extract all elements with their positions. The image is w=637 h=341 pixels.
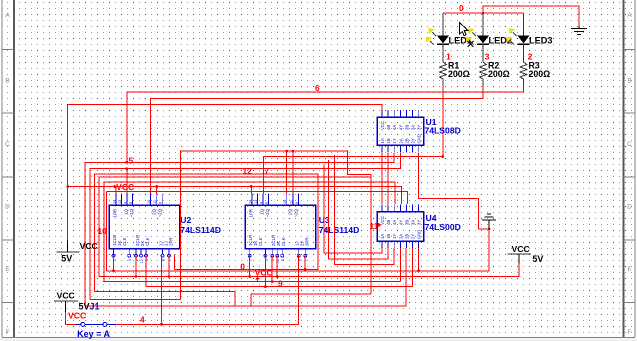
svg-text:VCC: VCC xyxy=(380,121,385,130)
resistor R3 xyxy=(520,60,550,85)
svg-text:LED3: LED3 xyxy=(529,36,553,46)
svg-text:1B: 1B xyxy=(386,138,391,143)
svg-text:VCC: VCC xyxy=(512,244,530,254)
junction bus270 U4p7 xyxy=(417,270,420,273)
net label 10 xyxy=(98,226,108,236)
svg-text:0: 0 xyxy=(240,261,245,271)
wire U2p7b drop xyxy=(168,255,170,277)
svg-text:3A: 3A xyxy=(411,125,416,130)
svg-text:2Q: 2Q xyxy=(288,208,293,214)
svg-text:1A: 1A xyxy=(380,234,385,239)
svg-text:CLK: CLK xyxy=(281,237,286,246)
wire sw to U2p6b xyxy=(161,255,163,325)
junction L3 net5 xyxy=(125,161,128,164)
svg-text:D: D xyxy=(627,204,632,211)
gate chip U4 74LS00D xyxy=(377,205,424,249)
net label 4 xyxy=(140,314,145,324)
ground GND1 xyxy=(571,26,587,35)
wire U2p7b to net0 xyxy=(173,255,175,270)
net label 0 top xyxy=(459,3,464,13)
wire x126 to U2p3t xyxy=(126,169,128,194)
svg-text:10: 10 xyxy=(283,200,287,204)
wire wrap106 xyxy=(106,192,108,271)
wire bus291 xyxy=(95,291,236,306)
svg-text:200Ω: 200Ω xyxy=(529,69,551,79)
wire net0 rail xyxy=(443,12,524,14)
wire bundle L8 xyxy=(107,192,408,205)
svg-text:J1: J1 xyxy=(90,302,100,312)
junction u3p7 xyxy=(304,268,307,271)
resistor R2 xyxy=(480,60,510,85)
svg-text:14: 14 xyxy=(112,200,116,204)
svg-text:1A: 1A xyxy=(380,138,385,143)
wire U4p2b wrap xyxy=(328,160,388,259)
wire U4p1b wrap xyxy=(324,165,382,254)
LED LED1 xyxy=(426,13,472,62)
svg-text:2Q: 2Q xyxy=(152,208,157,214)
svg-text:5: 5 xyxy=(129,156,134,166)
svg-text:2Y: 2Y xyxy=(411,138,416,143)
svg-text:2PR: 2PR xyxy=(169,237,174,246)
U4 refdes label xyxy=(426,213,437,223)
junction L7 vccrail xyxy=(66,185,69,188)
wire U3p5b drop xyxy=(276,255,278,277)
wire net9 riser xyxy=(271,255,273,282)
svg-text:74LS114D: 74LS114D xyxy=(180,225,221,235)
wire switch out xyxy=(116,323,299,325)
wire bundle L5 net0b xyxy=(95,174,318,291)
wire bus276 vcc xyxy=(99,264,519,277)
svg-text:GND: GND xyxy=(417,230,422,239)
wire L1 drop U3p6t xyxy=(292,151,294,193)
svg-text:200Ω: 200Ω xyxy=(448,69,470,79)
svg-text:74LS114D: 74LS114D xyxy=(319,225,360,235)
wire bundle L1 xyxy=(181,151,371,299)
svg-text:4B: 4B xyxy=(386,220,391,225)
wire U3p7b drop xyxy=(304,255,306,270)
wire bus281 net9 xyxy=(103,281,400,283)
svg-text:2A: 2A xyxy=(398,234,403,239)
wire bundle L4b xyxy=(99,177,371,277)
svg-text:74LS00D: 74LS00D xyxy=(425,222,461,232)
wire bus294 xyxy=(251,294,371,306)
wire U1p1b to U4p1t xyxy=(381,153,383,204)
junction b276b xyxy=(168,275,171,278)
wire net0 to ground xyxy=(483,6,579,26)
net label VCC u3 xyxy=(255,267,273,277)
svg-text:12: 12 xyxy=(243,166,253,176)
svg-text:14: 14 xyxy=(249,200,253,204)
junction L4 x126 xyxy=(125,167,128,170)
wire bundle L3 xyxy=(85,153,394,306)
svg-text:13: 13 xyxy=(254,200,258,204)
net label 5 xyxy=(129,156,134,166)
wire net12 drop xyxy=(250,187,252,194)
svg-text:9: 9 xyxy=(159,202,163,204)
wire bus306 xyxy=(85,248,406,306)
net label VCC top xyxy=(116,182,134,192)
svg-text:1PR: 1PR xyxy=(113,209,118,218)
switch key label xyxy=(77,329,110,339)
svg-text:3Y: 3Y xyxy=(417,125,422,130)
svg-text:4Y: 4Y xyxy=(398,220,403,225)
svg-text:2PR: 2PR xyxy=(305,237,310,246)
svg-text:GND: GND xyxy=(417,134,422,143)
wire R2 down xyxy=(151,85,484,193)
svg-text:VCC: VCC xyxy=(380,216,385,225)
svg-text:2Y: 2Y xyxy=(411,234,416,239)
svg-text:CLK: CLK xyxy=(145,237,150,246)
wire gnd2 down to bus270 xyxy=(419,229,490,271)
svg-text:4A: 4A xyxy=(392,220,397,225)
svg-text:6: 6 xyxy=(315,83,320,93)
svg-text:3Y: 3Y xyxy=(417,220,422,225)
junction bus286 xyxy=(264,285,267,288)
svg-text:~1Q: ~1Q xyxy=(129,208,134,217)
wire L1 drop U3p5t xyxy=(286,151,288,193)
svg-text:0: 0 xyxy=(459,3,464,13)
net label 0 u3 xyxy=(240,261,245,271)
svg-text:4Y: 4Y xyxy=(398,125,403,130)
svg-text:Key = A: Key = A xyxy=(77,329,110,339)
svg-text:CLK: CLK xyxy=(122,237,127,246)
junction gnd2 xyxy=(488,228,491,231)
vcc arrow u3 xyxy=(255,276,259,282)
U3 refdes label xyxy=(319,215,330,225)
LED LED2 xyxy=(466,13,512,62)
svg-text:2B: 2B xyxy=(404,234,409,239)
junction net0 xyxy=(482,12,485,15)
switch J1 body xyxy=(76,322,116,326)
svg-text:1PR: 1PR xyxy=(249,209,254,218)
wire U4p6b drop xyxy=(412,248,414,287)
junction L1a xyxy=(285,150,288,153)
wire net7 L2 to R1 xyxy=(263,157,442,194)
svg-text:VCC: VCC xyxy=(57,291,75,301)
ground GND2 xyxy=(482,214,496,229)
svg-text:2B: 2B xyxy=(404,138,409,143)
net label 9 xyxy=(278,278,283,288)
svg-text:12: 12 xyxy=(140,259,144,263)
wire U2p3b drop xyxy=(135,255,137,277)
svg-text:11: 11 xyxy=(289,200,293,204)
junction b276c xyxy=(248,275,251,278)
svg-text:4B: 4B xyxy=(386,125,391,130)
svg-text:F: F xyxy=(6,329,10,336)
svg-text:1B: 1B xyxy=(386,234,391,239)
net label 12 xyxy=(243,166,253,176)
svg-text:3B: 3B xyxy=(404,220,409,225)
svg-text:VCC: VCC xyxy=(68,311,86,321)
flip-flop chip U2 74LS114D xyxy=(109,193,180,263)
flip-flop chip U3 74LS114D xyxy=(245,193,316,263)
wire bus286 xyxy=(146,255,413,287)
U3 value label xyxy=(319,225,360,235)
junction L1b xyxy=(292,150,295,153)
svg-text:4: 4 xyxy=(140,314,145,324)
wire bundle L7 vcc xyxy=(68,187,402,205)
wire bundle L6 xyxy=(104,182,395,282)
svg-text:VCC: VCC xyxy=(80,241,98,251)
svg-text:2A: 2A xyxy=(398,138,403,143)
svg-text:3: 3 xyxy=(128,259,132,261)
wire sw to U3p6b xyxy=(298,255,300,325)
svg-text:11: 11 xyxy=(153,200,157,204)
junction net12 xyxy=(250,185,253,188)
svg-text:~1Q: ~1Q xyxy=(265,208,270,217)
svg-text:C: C xyxy=(5,141,10,148)
svg-text:CLK: CLK xyxy=(258,237,263,246)
svg-text:1Y: 1Y xyxy=(392,138,397,143)
svg-text:~2Q: ~2Q xyxy=(158,208,163,217)
svg-text:3B: 3B xyxy=(404,125,409,130)
wire vcc to switch xyxy=(66,312,77,324)
power VCC left lower xyxy=(54,291,78,313)
U1 value label xyxy=(425,126,461,136)
wire U2p1b drop xyxy=(113,255,115,271)
mouse cursor xyxy=(460,23,474,48)
net label 11 xyxy=(370,221,382,231)
svg-text:8: 8 xyxy=(162,259,166,261)
wire R3 to bus6 xyxy=(127,85,524,162)
svg-text:5V: 5V xyxy=(532,254,543,264)
net label 7 xyxy=(265,166,270,176)
wire U2p1t drop xyxy=(115,187,117,194)
U4 value label xyxy=(425,222,461,232)
svg-text:1Q: 1Q xyxy=(260,208,265,214)
svg-text:A: A xyxy=(627,12,632,19)
svg-text:3A: 3A xyxy=(411,220,416,225)
wire U2p6t drop xyxy=(156,187,158,194)
svg-text:5V: 5V xyxy=(61,254,72,264)
wire U3p1b drop xyxy=(249,255,251,277)
junction b276a xyxy=(135,275,138,278)
switch J1 refdes xyxy=(90,302,100,312)
U1 refdes label xyxy=(426,117,437,127)
junction VCC top xyxy=(113,185,116,188)
wire U4p3b wrap xyxy=(335,155,395,265)
svg-text:200Ω: 200Ω xyxy=(488,69,510,79)
wire bus286 riser xyxy=(264,255,266,287)
power VCC right 5V xyxy=(508,244,544,264)
U2 refdes label xyxy=(180,215,191,225)
net label 6 xyxy=(315,83,320,93)
wire U1p2b to U4p2t xyxy=(387,153,389,204)
svg-text:D: D xyxy=(5,204,10,211)
junction U2p6t xyxy=(155,185,158,188)
svg-text:F: F xyxy=(628,329,632,336)
svg-text:~2Q: ~2Q xyxy=(294,208,299,217)
U2 value label xyxy=(180,225,221,235)
svg-text:VCC: VCC xyxy=(255,267,273,277)
wire U1 gnd path xyxy=(419,153,489,229)
wire bus299 xyxy=(90,298,181,300)
svg-text:E: E xyxy=(5,266,10,273)
svg-text:74LS08D: 74LS08D xyxy=(425,126,461,136)
svg-text:4A: 4A xyxy=(392,125,397,130)
svg-text:5: 5 xyxy=(129,202,133,204)
svg-text:B: B xyxy=(5,78,9,85)
svg-text:A: A xyxy=(5,12,10,19)
svg-text:VCC: VCC xyxy=(116,182,134,192)
svg-text:1Q: 1Q xyxy=(124,208,129,214)
wire U4p4b drop xyxy=(399,248,401,282)
wire U4p7b drop xyxy=(418,248,420,271)
svg-text:9: 9 xyxy=(295,202,299,204)
wire bus270 gnd xyxy=(107,270,419,272)
wire vcc-left to U1 pin1 xyxy=(68,105,382,241)
resistor R1 xyxy=(440,60,470,85)
svg-text:U2: U2 xyxy=(180,215,191,225)
net label 1 xyxy=(446,52,451,62)
svg-text:6: 6 xyxy=(281,259,285,261)
junction sw U2 xyxy=(160,323,163,326)
gate chip U1 74LS08D xyxy=(377,110,424,152)
junction U2p1b xyxy=(112,270,115,273)
junction L2 R1 xyxy=(441,155,444,158)
svg-text:13: 13 xyxy=(118,200,122,204)
net label 2 xyxy=(528,52,533,62)
LED LED3 xyxy=(506,13,552,62)
net label 3 xyxy=(485,52,490,62)
net label VCC red left xyxy=(68,311,86,321)
svg-text:4: 4 xyxy=(123,202,127,204)
svg-text:C: C xyxy=(627,141,632,148)
svg-text:E: E xyxy=(627,266,632,273)
svg-text:10: 10 xyxy=(147,200,151,204)
svg-text:4: 4 xyxy=(260,202,264,204)
svg-text:1Y: 1Y xyxy=(392,234,397,239)
power VCC left upper xyxy=(57,241,98,264)
source 5V label xyxy=(79,302,90,312)
wire bundle L4 xyxy=(90,153,400,300)
wire R1 down xyxy=(442,85,444,157)
junction b276d xyxy=(276,275,279,278)
svg-text:B: B xyxy=(627,78,631,85)
junction net9 xyxy=(271,280,274,283)
svg-text:5: 5 xyxy=(265,202,269,204)
